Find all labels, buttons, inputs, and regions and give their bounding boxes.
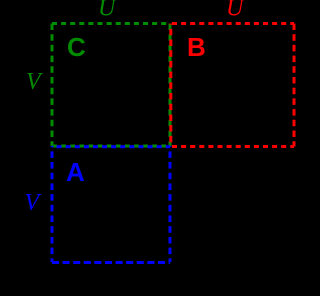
- svg-text:A: A: [66, 157, 85, 187]
- svg-text:U: U: [226, 0, 245, 22]
- rectangle C (green) left edge: [51, 24, 54, 147]
- rectangle B (red) top edge: [170, 22, 294, 25]
- rectangle A (blue) top edge (interleaved with C bottom): [52, 145, 170, 148]
- rectangle B (red) bottom edge: [170, 145, 294, 148]
- rectangle C (green) bottom edge: [52, 145, 170, 148]
- rectangle A (blue) bottom edge: [52, 261, 170, 264]
- rectangle A (blue) left edge: [51, 146, 54, 262]
- rectangle A (blue) right edge: [169, 146, 172, 262]
- rectangle C (green) top edge: [52, 22, 170, 25]
- rectangle B (red) right edge: [293, 24, 296, 147]
- rectangle C (green) right edge: [169, 24, 172, 147]
- svg-text:V: V: [25, 190, 42, 216]
- svg-text:C: C: [67, 32, 86, 62]
- svg-text:U: U: [98, 0, 117, 22]
- svg-text:V: V: [26, 69, 43, 95]
- rectangle B (red) left edge (interleaved with C right): [169, 24, 172, 147]
- svg-text:B: B: [187, 32, 206, 62]
